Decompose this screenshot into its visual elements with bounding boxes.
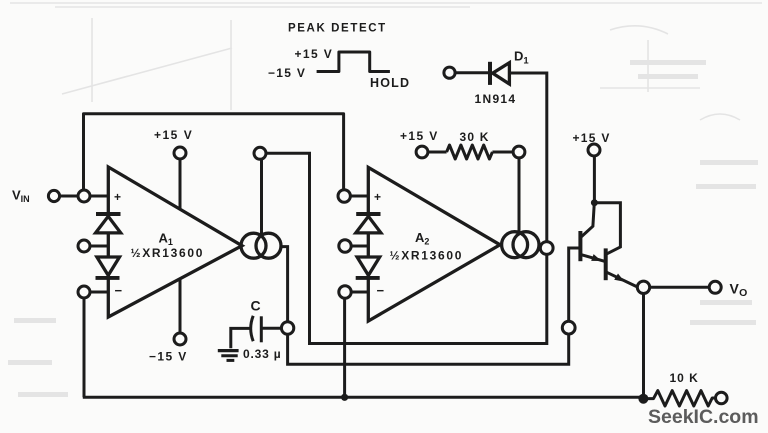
node: VO terminal xyxy=(709,281,721,293)
wire: junction to A1 + input xyxy=(90,195,108,198)
svg-text:+15 V: +15 V xyxy=(295,47,334,61)
ground xyxy=(218,349,239,352)
wire: VIN terminal to input junction xyxy=(60,195,79,198)
OTA output symbol A2 (double circle) xyxy=(502,232,528,258)
node: D1 hold-control terminal xyxy=(444,67,455,78)
wire: A2 - input down to bottom rail xyxy=(343,298,346,397)
op-amp A2 triangle xyxy=(368,167,500,321)
node: A1 diode bias terminal xyxy=(78,240,90,252)
op-amp A1 triangle xyxy=(108,167,242,317)
junction dot: Q collector node xyxy=(591,199,598,206)
junction dot: 10K to rail xyxy=(638,394,648,404)
node: A1 bias terminal xyxy=(254,147,266,159)
diode (A2 bottom linearizing diode, pointing down) xyxy=(357,257,380,275)
svg-text:−15 V: −15 V xyxy=(149,350,188,364)
pulse waveform (peak detect / hold control) xyxy=(317,52,390,72)
wire: A1 bias terminal right then down and across to A2 output node xyxy=(266,153,547,343)
wire: A2 diode-bias terminal stub xyxy=(351,245,368,248)
wire: D1 anode terminal stub xyxy=(455,71,489,74)
wire + resistor 10 K xyxy=(648,391,716,406)
wire: bottom rail xyxy=(83,396,645,399)
node: A2 output / D1 node xyxy=(540,242,553,255)
svg-text:C: C xyxy=(251,298,261,314)
diode (A1 bottom linearizing diode, cathode bar) xyxy=(96,276,120,280)
capacitor C right plate xyxy=(260,316,263,342)
diode (A2 bottom linearizing diode, cathode bar) xyxy=(356,276,380,280)
wire: top feedback rail from VIN node to A2 + input xyxy=(84,114,344,190)
svg-text:½XR13600: ½XR13600 xyxy=(390,249,464,263)
wire: cap right plate to hold node circle xyxy=(263,327,282,330)
node: A2 diode bias terminal xyxy=(339,240,351,252)
wire: +15V to 30K left xyxy=(428,151,447,154)
wire: +15V supply into A1 xyxy=(179,159,182,210)
wire: A2 - input stub xyxy=(351,291,368,294)
svg-text:30 K: 30 K xyxy=(460,130,490,144)
svg-text:+15 V: +15 V xyxy=(400,129,439,143)
transistor Q1 collector xyxy=(580,205,594,238)
node: A1 -15V terminal xyxy=(174,333,186,345)
diode (A2 top linearizing diode, cathode bar) xyxy=(356,212,380,216)
wire: 30K terminal down to A2 OTA bias input xyxy=(518,158,521,232)
svg-text:0.33 µ: 0.33 µ xyxy=(243,347,281,361)
svg-text:−: − xyxy=(115,283,123,298)
svg-text:HOLD: HOLD xyxy=(370,76,410,90)
svg-text:PEAK DETECT: PEAK DETECT xyxy=(288,23,387,35)
svg-text:+15 V: +15 V xyxy=(154,128,193,142)
wire: A1 - input down to bottom rail xyxy=(83,298,86,397)
node: A2 + input xyxy=(338,190,350,202)
node: emitter output junction xyxy=(637,281,649,293)
svg-text:+15 V: +15 V xyxy=(573,131,611,145)
wire: A2 + input stub xyxy=(350,195,368,198)
wire: emitter node down to 10K junction xyxy=(642,294,645,397)
wire: 30K right to terminal xyxy=(492,151,513,154)
wire: A1 - input stub xyxy=(90,291,108,294)
wire: A1 bias(top of OTA output) up to terminal xyxy=(260,159,263,235)
diode (A1 bottom linearizing diode, pointing down) xyxy=(97,257,120,275)
wire: collector link to Q2 xyxy=(594,203,620,255)
node: A2 inverting input xyxy=(339,286,351,298)
svg-text:10 K: 10 K xyxy=(670,371,699,385)
svg-text:1N914: 1N914 xyxy=(475,92,517,106)
node: VIN junction xyxy=(78,190,90,202)
wire: cap left plate to ground xyxy=(231,328,251,348)
wire: -15V supply into A1 xyxy=(179,279,182,333)
node: Q +15V terminal xyxy=(588,144,600,156)
svg-text:−: − xyxy=(377,283,385,298)
capacitor C left curved plate xyxy=(251,316,254,341)
wire: A1 diode-bias terminal stub xyxy=(90,245,108,248)
wire: +15V down to Q collector node xyxy=(593,156,596,200)
svg-text:+: + xyxy=(114,190,121,204)
svg-text:½XR13600: ½XR13600 xyxy=(131,246,205,260)
svg-text:−15 V: −15 V xyxy=(268,66,306,80)
diode D1 (1N914), cathode bar xyxy=(488,62,492,85)
node: A2 +15V terminal xyxy=(416,146,428,158)
diode (A1 top linearizing diode, cathode bar) xyxy=(96,212,121,216)
ghost layer (faint print-through, decorative) xyxy=(10,3,762,120)
svg-text:+: + xyxy=(374,190,381,204)
node: VIN terminal xyxy=(48,190,59,201)
wire: A1 output right, down to hold cap node, across and up to Q1 base xyxy=(280,247,581,365)
OTA output symbol A1 (double circle) xyxy=(241,233,266,258)
diode (A1 top linearizing diode, pointing up) xyxy=(96,216,121,233)
transistor Q1 base bar xyxy=(578,231,582,261)
transistor Q2 base bar xyxy=(604,248,608,280)
node: A1 inverting input terminal xyxy=(78,286,90,298)
node: hold capacitor node xyxy=(281,322,293,334)
junction dot: A2 inverting to rail xyxy=(341,394,348,401)
node: 30K right terminal xyxy=(513,146,525,158)
node: A1 +15V terminal xyxy=(174,147,186,159)
node: 10K right terminal xyxy=(716,392,728,404)
diode (A2 top linearizing diode, pointing up) xyxy=(356,216,381,233)
wire: D1 cathode-line down to A2 output node circle xyxy=(510,73,547,242)
transistor Q2 emitter with arrow xyxy=(606,272,638,287)
resistor 30 K xyxy=(447,145,493,159)
transistor Q1 emitter with arrow xyxy=(580,254,605,261)
node: Q1 base mid terminal xyxy=(562,321,575,334)
diode D1 body pointing left xyxy=(493,63,510,84)
svg-text:SeekIC.com: SeekIC.com xyxy=(648,406,759,428)
wire: emitter node to VO terminal xyxy=(650,286,710,289)
